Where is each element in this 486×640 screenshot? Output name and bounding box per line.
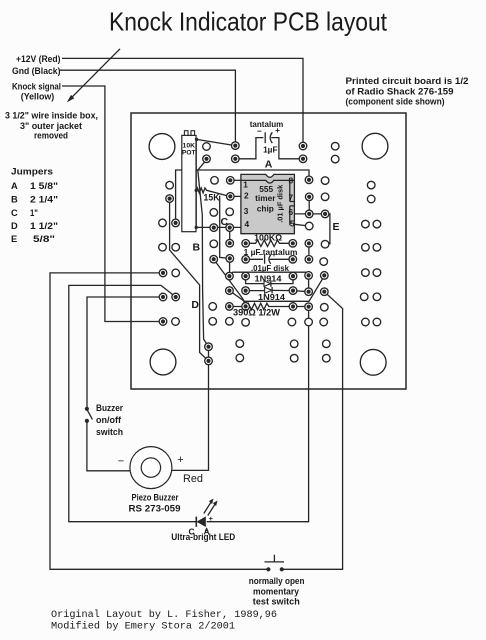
555 timer chip (241, 174, 295, 233)
svg-text:−: − (259, 250, 264, 259)
pad r4 c5 (321, 193, 329, 201)
wire 100K pad link (308, 243, 310, 259)
wire Y-net diagonal (170, 199, 209, 361)
pad pair3 a (362, 269, 370, 277)
mount hole bottom-left (150, 349, 176, 375)
chip inner top line (241, 180, 295, 183)
capacitor .01uF disk inside chip (290, 181, 294, 225)
pad cap2 right (289, 255, 297, 263)
wire chip pin2 (230, 195, 241, 197)
wire pot to cap pad (197, 139, 236, 145)
svg-text:4: 4 (245, 219, 250, 229)
pointer arrow to wire note (67, 49, 120, 103)
pad r3 left (166, 181, 174, 189)
svg-text:1N914: 1N914 (258, 292, 285, 302)
svg-text:test switch: test switch (253, 597, 300, 607)
pad buzzer net bottom (205, 357, 213, 365)
svg-text:A: A (265, 159, 273, 171)
pad r14 c6 (320, 318, 328, 326)
svg-text:E: E (332, 221, 339, 233)
capacitor tantalum 1uF top (235, 132, 303, 159)
pad r13 c6 (321, 303, 329, 311)
pad r14 c2b (242, 319, 250, 327)
pad A left (203, 155, 211, 163)
piezo buzzer (130, 447, 172, 489)
pad r11 c6 (321, 272, 329, 280)
pad Y-net top (166, 195, 174, 203)
pad r9 left b (172, 243, 180, 251)
svg-text:1N914: 1N914 (255, 274, 282, 284)
pad pair3 b (373, 269, 381, 277)
svg-text:Red: Red (183, 473, 203, 485)
svg-text:1: 1 (243, 180, 248, 190)
svg-text:Modified by Emery Stora 2/2001: Modified by Emery Stora 2/2001 (51, 621, 235, 633)
svg-text:of Radio Shack 276-159: of Radio Shack 276-159 (346, 86, 454, 96)
wire chip pin1 (230, 179, 241, 181)
pad r3 c2 (211, 177, 219, 185)
pad disk net left (226, 272, 234, 280)
wire to test switch via diagonal (282, 292, 343, 570)
pad pin8 (305, 176, 313, 184)
pad cap1 left (232, 155, 240, 163)
svg-text:Ultra-bright LED: Ultra-bright LED (171, 532, 235, 542)
wire chip pin5 (294, 224, 309, 226)
pad pair1 a (362, 220, 370, 228)
pad r14 c4 (288, 318, 296, 326)
pad pin6 a (305, 210, 313, 218)
pad pair4 a (360, 293, 368, 301)
pad pin5 (305, 222, 313, 230)
pad jumper A anchor (172, 219, 180, 227)
svg-text:+: + (275, 125, 280, 135)
svg-text:100KΩ: 100KΩ (254, 232, 282, 242)
wire pot bottom row to chip pin4 (196, 226, 241, 228)
pad right single 2 (367, 195, 375, 203)
wire jumper A (176, 170, 309, 223)
pad r8 c5 (305, 240, 313, 248)
pad cap2 left (242, 255, 250, 263)
pad 100K right (289, 240, 297, 248)
svg-text:−: − (118, 456, 124, 468)
pad test-net (321, 288, 329, 296)
pad b6 (323, 354, 331, 362)
svg-text:2: 2 (244, 191, 249, 201)
buzzer on/off switch (85, 407, 93, 423)
svg-text:on/off: on/off (96, 415, 122, 425)
svg-text:10K: 10K (183, 142, 196, 149)
svg-text:5: 5 (290, 219, 295, 229)
svg-text:momentary: momentary (253, 586, 300, 596)
pad pin1 feed (227, 177, 235, 185)
pad 390 mid (289, 303, 297, 311)
svg-text:5/8": 5/8" (33, 234, 55, 244)
pad r6 left a (159, 219, 167, 227)
pad r11 c5 (305, 272, 313, 280)
pad diode2 right (305, 288, 313, 296)
svg-text:−: − (257, 126, 262, 136)
pad b2 (290, 340, 298, 348)
svg-text:1 µF tantalum: 1 µF tantalum (244, 247, 298, 257)
pad pair4 b (373, 293, 381, 301)
svg-text:1 5/8": 1 5/8" (30, 181, 58, 191)
svg-text:B: B (11, 195, 18, 205)
wire outer loop to test switch (net 1) (50, 273, 268, 569)
pad r5 c2 (210, 209, 218, 217)
PADS (149, 133, 388, 375)
wire buzzer plus up to board pad (172, 347, 209, 471)
pad knock entry (159, 318, 167, 326)
pad b4 (236, 354, 244, 362)
svg-text:+12V (Red): +12V (Red) (16, 54, 61, 64)
pad r12 c3 (226, 287, 234, 295)
pad top r2c4 (331, 155, 339, 163)
PCB board outline (131, 113, 406, 389)
svg-text:2 1/4": 2 1/4" (30, 195, 58, 205)
svg-text:Printed circuit board is 1/2: Printed circuit board is 1/2 (346, 76, 469, 86)
wire pad link right column (308, 275, 310, 291)
pad 15K branch (226, 255, 234, 263)
pad 100K left (242, 240, 250, 248)
svg-text:1": 1" (30, 208, 38, 218)
LED A pointer (205, 527, 209, 531)
svg-text:switch: switch (96, 427, 123, 437)
pad right single 1 (367, 181, 375, 189)
pad diode2 left (242, 287, 250, 295)
wire .01uF disk net (229, 272, 308, 276)
wire to buzzer on/off switch (net 3) (87, 297, 163, 409)
svg-text:Gnd (Black): Gnd (Black) (12, 66, 61, 76)
svg-text:normally open: normally open (249, 576, 305, 586)
wire chip pin6 (294, 213, 325, 215)
resistor 15K (196, 188, 229, 197)
wire link 15K-branch pad down (229, 258, 231, 276)
wire pot wiper (195, 139, 197, 227)
pad r14 c3 (226, 318, 234, 326)
pad left edge 2 (159, 293, 167, 301)
pad left edge 1b (172, 269, 180, 277)
pad cap1 right (299, 155, 307, 163)
svg-text:removed: removed (34, 130, 68, 140)
pad +Gnd entry (232, 142, 240, 150)
pad diode1 left (242, 272, 250, 280)
wire bypass under diode2 (229, 276, 324, 301)
pad r14 c2 (209, 318, 217, 326)
pad r3 c5 (321, 177, 329, 185)
pad b5 (290, 354, 298, 362)
pad 390 left (242, 303, 250, 311)
wire pin8 column (308, 197, 310, 214)
pad diode2 mid (289, 287, 297, 295)
svg-text:Knock signal: Knock signal (12, 82, 61, 92)
pad jumper E top (321, 210, 329, 218)
svg-text:Jumpers: Jumpers (11, 167, 53, 177)
pad pair2 a (362, 244, 370, 252)
wire 15K branch down to pad (220, 196, 230, 259)
svg-text:C: C (221, 216, 229, 228)
resistor 390 ohm (229, 303, 308, 309)
wire jumper E (325, 214, 330, 244)
pad r10 c5 (305, 255, 313, 263)
pad pair1 b (373, 220, 381, 228)
svg-text:RS 273-059: RS 273-059 (129, 504, 181, 514)
pad top r1c4 (331, 142, 339, 150)
capacitor 1uF tantalum lower (246, 255, 293, 264)
pad r13 c3 (226, 303, 234, 311)
svg-text:timer: timer (255, 193, 276, 203)
pad b1 (236, 340, 244, 348)
svg-text:7: 7 (289, 193, 294, 203)
svg-text:1µF: 1µF (263, 144, 277, 154)
svg-text:Buzzer: Buzzer (96, 403, 123, 413)
wire Knock signal feed (62, 86, 163, 322)
svg-text:390Ω 1/2W: 390Ω 1/2W (233, 307, 280, 317)
10K potentiometer (182, 131, 199, 232)
pad r10 c6 (320, 258, 328, 266)
wire to LED cathode side (net 2) (69, 285, 196, 521)
svg-text:POT: POT (182, 149, 196, 156)
wire diagonal D trace (214, 259, 246, 306)
wire jumper B vertical (198, 170, 209, 346)
svg-text:C: C (11, 208, 18, 218)
pad pair2 b (373, 244, 381, 252)
junction 15K (195, 189, 198, 192)
pad left edge 3b (172, 318, 180, 326)
pad jumper C top (226, 224, 234, 232)
wire Gnd feed (60, 70, 235, 145)
pad b3 (323, 340, 331, 348)
pad pot row a (210, 224, 218, 232)
svg-text:A: A (11, 181, 18, 191)
diode 1N914 upper (246, 276, 293, 287)
pad r9 left a (159, 243, 167, 251)
svg-text:+: + (177, 454, 183, 466)
pad pair5 a (362, 318, 370, 326)
pad jumper C bottom (226, 239, 234, 247)
momentary test switch (265, 555, 285, 572)
wire A to pad joint (198, 160, 207, 171)
pad +12V entry (299, 142, 307, 150)
svg-text:+: + (209, 514, 214, 523)
svg-text:.01µF disk: .01µF disk (251, 263, 289, 273)
pad left edge 1 (159, 269, 167, 277)
svg-text:3 1/2" wire inside box,: 3 1/2" wire inside box, (5, 110, 98, 120)
wire +12V feed (62, 58, 303, 146)
pad 390 right (305, 303, 313, 311)
mount hole bottom-right (360, 349, 386, 375)
wire jumper C (229, 228, 231, 244)
pad top r1c1 (203, 143, 211, 151)
svg-text:Piezo Buzzer: Piezo Buzzer (132, 493, 179, 503)
resistor 100K (246, 240, 293, 246)
pad r13 c2 (209, 303, 217, 311)
pad diode1 right (289, 272, 297, 280)
svg-text:D: D (11, 221, 18, 231)
wire switch to buzzer minus (87, 421, 130, 471)
pad r5 c3 (226, 208, 234, 216)
pad left edge 2b (172, 293, 180, 301)
junction pot bottom (195, 226, 198, 229)
pad r8 c2 (210, 240, 218, 248)
svg-text:6: 6 (289, 207, 294, 217)
svg-text:15K: 15K (204, 192, 220, 202)
svg-text:(Yellow): (Yellow) (21, 91, 55, 101)
mount hole top-left (149, 134, 175, 160)
svg-text:chip: chip (257, 204, 274, 214)
svg-text:3: 3 (244, 206, 249, 216)
svg-text:Knock Indicator PCB layout: Knock Indicator PCB layout (109, 7, 388, 37)
pad buzzer net top (205, 343, 213, 351)
pad pin2 feed (227, 193, 235, 201)
svg-text:B: B (193, 242, 201, 254)
pad jumper E bottom (321, 240, 329, 248)
pad r4 c4 (305, 193, 313, 201)
svg-text:.01 µF disk: .01 µF disk (275, 184, 284, 223)
mount hole top-right (362, 133, 388, 159)
pad pair5 b (373, 318, 381, 326)
svg-text:1 1/2": 1 1/2" (30, 221, 58, 231)
svg-text:D: D (191, 299, 199, 311)
svg-text:E: E (11, 234, 17, 244)
svg-text:(component side shown): (component side shown) (346, 96, 445, 106)
wire LED net vertical (207, 307, 309, 522)
pad D-trace top (210, 255, 218, 263)
svg-text:Original Layout by L. Fisher,: Original Layout by L. Fisher, 1989,96 (51, 609, 277, 621)
svg-text:8: 8 (289, 176, 294, 186)
pad r14 c5 (305, 318, 313, 326)
svg-text:+: + (272, 250, 277, 259)
diode 1N914 lower (246, 287, 309, 294)
LED ultra-bright (196, 499, 217, 528)
